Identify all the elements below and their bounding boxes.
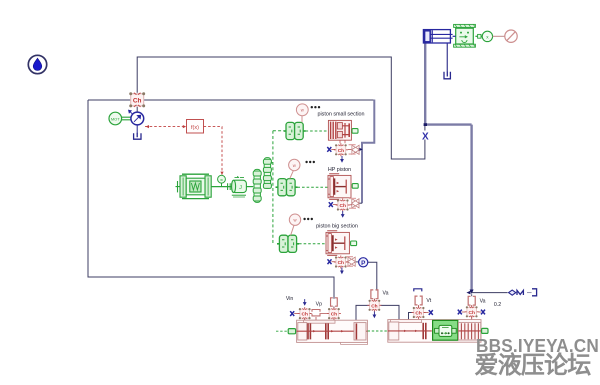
piston big section PB1	[326, 231, 349, 256]
speed sensor w1	[296, 104, 308, 116]
tank: pump suction tank	[134, 133, 141, 139]
wire: cam stub row1	[273, 130, 284, 132]
end stop bracket right	[532, 289, 537, 296]
tiny labels near orifice pair O3	[346, 256, 353, 257]
svg-text:P: P	[361, 260, 366, 267]
svg-text:w: w	[220, 178, 223, 182]
shaft: inertia to gear	[246, 186, 253, 188]
wire: row2 orifice output to HP rail	[359, 202, 362, 204]
shaft: motor to pump	[122, 117, 132, 120]
wire: thick cylinder rod-side line	[424, 43, 426, 123]
orifice Vp	[312, 310, 320, 316]
orifice pair O1	[352, 145, 359, 154]
plug X at Vin	[290, 311, 294, 316]
plug X at Ch3	[328, 259, 332, 264]
null signal source N1	[505, 30, 517, 42]
wire: pump inlet to tank	[136, 125, 138, 134]
orifice pair O2	[352, 199, 359, 208]
cylinder body B1	[297, 320, 368, 344]
cam piston CP2	[276, 179, 298, 196]
orifice Vt	[415, 296, 422, 305]
svg-text:0.2: 0.2	[494, 302, 501, 308]
link mass to sensor	[475, 35, 482, 37]
port: HP piston mech port	[352, 184, 358, 189]
node: junction dot at thick corner	[424, 123, 427, 126]
speed sensor w3	[289, 214, 300, 225]
wire: outer return loop left/bottom	[88, 100, 334, 299]
speed sensor w2	[289, 159, 300, 170]
signal wire: f(x) to engine control	[204, 127, 223, 175]
inertia J1	[232, 176, 254, 197]
cylinder body B2	[388, 320, 481, 343]
svg-text:Va: Va	[383, 290, 389, 296]
wire: cylinder piston-side to tank	[446, 43, 448, 71]
tiny labels near orifice pair O2	[349, 198, 356, 199]
svg-text:Ch: Ch	[133, 98, 142, 105]
plug X at Ch2	[329, 202, 333, 207]
rod link cylinder to mass	[453, 35, 456, 37]
svg-text:Vt: Vt	[426, 298, 431, 304]
plug X left of Ch8	[458, 310, 462, 315]
svg-text:X: X	[422, 131, 429, 142]
link: cam piston 1 to piston small	[306, 130, 328, 132]
svg-text:HP piston: HP piston	[328, 167, 351, 173]
link: cam piston 3 to piston big	[299, 243, 325, 245]
gear stack G2	[263, 158, 273, 189]
svg-text:J: J	[239, 185, 242, 191]
tank arrow below Ch1	[340, 156, 344, 163]
plug X right of Ch7	[429, 310, 433, 315]
cylinder CYL1	[423, 30, 452, 43]
check valve Ch5	[327, 307, 341, 320]
tiny labels near orifice pair O1	[349, 144, 356, 145]
plug X right of Ch8	[481, 310, 485, 315]
plug X at Ch1	[327, 147, 331, 152]
wire: X plug to thick junction	[424, 125, 426, 131]
shaft: camshaft (dashed)	[272, 131, 274, 244]
displacement sensor X1	[482, 31, 492, 41]
check valve Ch3	[334, 256, 348, 269]
coupling ticks	[228, 183, 231, 190]
wire: Va mid left branch to body1	[356, 305, 371, 320]
stub: Ch4 into body	[305, 317, 334, 321]
engine mount shaft stub	[176, 181, 181, 192]
orifice Va right	[468, 296, 475, 305]
check valve Ch7	[412, 306, 426, 319]
tank arrow below Ch2	[341, 211, 345, 218]
wire: HP rail (thick)	[362, 100, 374, 204]
port: piston big mech port	[351, 241, 357, 246]
motor MOT M1	[109, 112, 122, 125]
watermark BBS.IYEYA.CN	[476, 337, 599, 356]
watermark chinese	[475, 354, 591, 378]
tank arrow below Ch6	[373, 312, 377, 319]
wire: Va mid right branch to body2	[381, 305, 400, 319]
mass with friction M2	[454, 24, 476, 47]
svg-text:piston big section: piston big section	[316, 224, 358, 230]
water drop logo	[28, 55, 46, 73]
wire: thick horizontal line to right drop	[425, 123, 471, 125]
orifice Va mid	[371, 290, 378, 299]
right rod port green	[482, 328, 488, 333]
wire: relief bypass top loop y=57	[137, 57, 425, 159]
wire: Vt valve to body2	[409, 313, 414, 320]
wire: pump outlet to relief	[136, 107, 138, 112]
tank: cylinder return tank	[444, 72, 450, 79]
signal wire: pump swash to f(x)	[145, 126, 186, 128]
orifice pair O3	[348, 257, 355, 266]
inline orifice on supply drop	[331, 298, 338, 306]
svg-text:piston small section: piston small section	[317, 112, 364, 118]
svg-text:Va: Va	[480, 298, 486, 304]
svg-text:MOT: MOT	[111, 116, 120, 121]
speed input sensor on shaft	[218, 175, 226, 183]
end stop bracket	[414, 289, 422, 292]
port: piston small mech port	[352, 129, 358, 134]
link sensor to null source	[493, 35, 505, 37]
relief valve Ch (on supply line)	[129, 92, 145, 107]
tank arrow below Ch3	[340, 268, 344, 275]
rod port green	[288, 329, 295, 334]
check valve Ch2	[336, 199, 350, 212]
spring stack (red hatch)	[458, 322, 480, 340]
svg-text:f(x): f(x)	[191, 125, 199, 131]
rod link between bodies (dashed)	[368, 330, 388, 332]
rod stub dashed	[276, 330, 288, 332]
node: row1 rail arrow	[359, 148, 363, 152]
wire: supply line y=100 to HP rail drop	[88, 99, 374, 101]
gear stack G1	[253, 169, 261, 202]
wire: row1 orifice output to HP rail	[360, 148, 362, 150]
tank arrow into Ch4	[303, 299, 307, 306]
cam piston CP1	[284, 122, 306, 139]
check valve Ch6	[367, 299, 381, 312]
node: arrow end of thick drop	[470, 290, 474, 295]
spring-loaded spool block (green)	[433, 320, 458, 340]
check valve Ch4	[298, 307, 312, 320]
node: left arrow at branch junction	[466, 291, 470, 295]
shaft: engine to inertia	[211, 186, 232, 188]
wire: thick right vertical drop	[470, 125, 472, 290]
check valve Ch8	[465, 305, 479, 318]
svg-text:Vin: Vin	[286, 296, 294, 302]
wire: branch line to damper	[472, 292, 508, 294]
link: cam piston 2 to HP piston	[297, 186, 327, 188]
engine E1 block	[180, 176, 186, 197]
wire: P sensor to Va mid valve	[368, 262, 377, 290]
pump P1 (variable displacement)	[131, 112, 144, 125]
HP piston PH1	[328, 174, 351, 200]
check valve Ch1	[334, 143, 348, 156]
function block f(x)	[187, 120, 204, 134]
pressure sensor P1	[356, 261, 359, 263]
svg-text:Vp: Vp	[316, 301, 322, 307]
cam piston CP3	[277, 235, 299, 252]
damper DM1	[509, 290, 516, 295]
piston small section PS1	[328, 120, 351, 143]
